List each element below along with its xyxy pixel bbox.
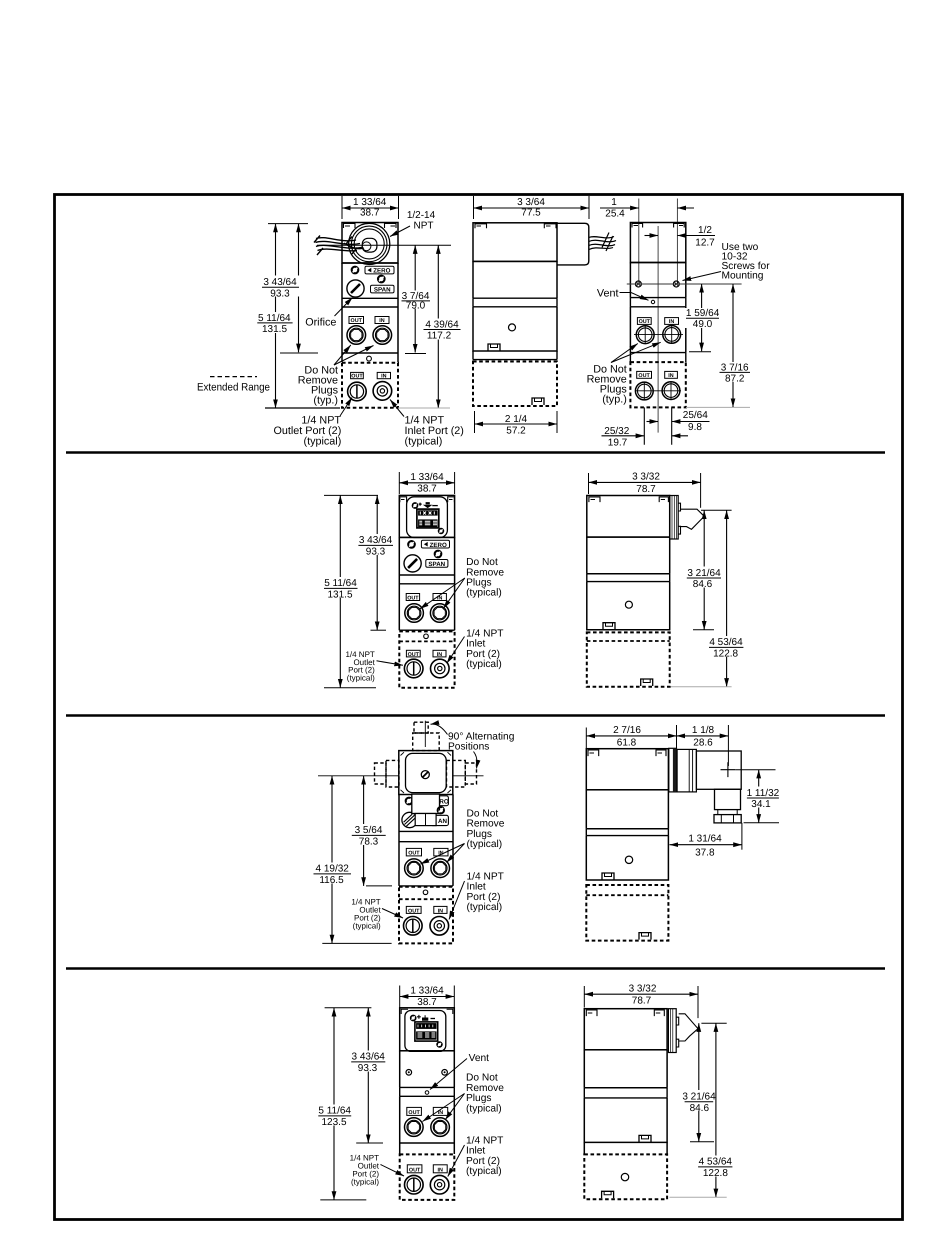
p2 right dashed box	[587, 632, 670, 686]
p2 right connector plate	[670, 496, 679, 540]
p1 right section line 2	[630, 297, 685, 299]
p2 dashed OUT port	[404, 659, 423, 678]
svg-text:4 19/32: 4 19/32	[316, 864, 350, 875]
p1 dim 1 59/64 extension	[689, 351, 711, 353]
p4 vent hole	[425, 1091, 429, 1095]
p4 module terminal row	[416, 1031, 436, 1039]
p1 middle third section	[473, 307, 557, 351]
p3 right dashed connector body	[447, 760, 466, 787]
p1 dim 4 39/64 line	[437, 245, 439, 408]
p1 SPAN label box	[371, 285, 395, 293]
svg-text:IN: IN	[437, 652, 442, 658]
p3 right connector lower block	[715, 789, 741, 809]
p1 dome middle ring	[351, 226, 387, 262]
svg-text:3 21/64: 3 21/64	[682, 1092, 716, 1103]
p1 right mounting screw right	[673, 281, 679, 287]
p1 right dashed IN port	[662, 382, 680, 400]
p1 right view screw center lines	[639, 199, 678, 285]
svg-text:3 3/32: 3 3/32	[629, 983, 657, 994]
p3 DIN connector inner square	[406, 753, 447, 792]
p1 left section line 3	[342, 306, 398, 308]
p3 right connector mounting plate	[669, 748, 677, 792]
svg-text:OUT: OUT	[408, 908, 420, 914]
p3 section line 1	[399, 830, 453, 832]
p1 dim 5 11/64 text	[256, 312, 295, 335]
p2 leader inlet port	[447, 637, 465, 664]
p2 right mounting clip	[603, 623, 615, 630]
p4 right mounting clip	[639, 1135, 651, 1142]
p3 right screw reference line	[735, 769, 775, 771]
p3 section line 3	[399, 885, 453, 887]
p1 leader inlet port	[390, 400, 404, 417]
svg-text:(typical): (typical)	[304, 436, 342, 448]
p3 dashed IN port	[430, 917, 449, 936]
svg-text:IN: IN	[437, 1167, 442, 1173]
p3 leader to IN port	[447, 844, 465, 863]
p3 SPAN label box (partially hidden)	[430, 815, 448, 825]
p1 dim 25/32 19.7 arrows	[602, 435, 645, 437]
p1 Orifice leader	[335, 298, 353, 317]
p3 dim 3 5/64 extension bottom	[366, 885, 392, 887]
p2 dim 3 21/64 line	[703, 510, 705, 629]
svg-text:25/32: 25/32	[604, 426, 629, 437]
p2 right top tab right	[659, 497, 668, 502]
p3 leader to OUT port	[421, 844, 465, 865]
svg-text:(typical): (typical)	[467, 839, 503, 850]
p4 dim 3 43/64 line	[367, 1008, 369, 1143]
p1 dome hub inner	[362, 242, 371, 251]
svg-text:1: 1	[611, 197, 617, 208]
svg-text:(typical): (typical)	[351, 1178, 379, 1187]
p2 right section line 1	[587, 536, 670, 538]
p1 right thin band	[630, 298, 685, 307]
p3 leader outlet port	[382, 909, 403, 919]
p2 display module	[407, 497, 448, 538]
p3 right dashed divider	[586, 894, 668, 896]
p1 dashed OUT port	[348, 382, 367, 401]
svg-text:12.7: 12.7	[695, 237, 715, 248]
svg-text:(typical): (typical)	[466, 588, 502, 599]
p1 Vent leader	[620, 293, 649, 301]
p4 right top tab left	[586, 1010, 597, 1016]
p3 leader positions to right connector	[474, 752, 478, 769]
p1 right vent hole	[651, 300, 654, 303]
p1 left section line 1	[342, 262, 398, 264]
p2 left section line 4	[399, 629, 454, 631]
p2 dim 3 43/64 line	[376, 495, 378, 630]
svg-text:3 5/64: 3 5/64	[355, 825, 383, 836]
svg-text:116.5: 116.5	[319, 875, 344, 886]
svg-text:1 33/64: 1 33/64	[410, 986, 444, 997]
svg-text:78.7: 78.7	[632, 996, 652, 1007]
p4 dim 5 11/64 text	[316, 1105, 354, 1129]
p3 right connector neck	[718, 810, 737, 815]
svg-text:1 11/32: 1 11/32	[747, 788, 780, 799]
p1 right screws reference line	[627, 283, 742, 285]
p1 dim 3 3/64 text	[513, 197, 550, 208]
p3 right dim 2 7/16 extension lines	[586, 725, 676, 749]
p1 right dashed IN label box	[665, 371, 678, 378]
svg-text:1 33/64: 1 33/64	[410, 472, 444, 483]
svg-text:OUT: OUT	[638, 373, 650, 379]
p3 right mounting clip	[602, 873, 614, 880]
separator line 2	[66, 714, 885, 717]
p1 dim 1 25.4 right segment	[677, 207, 694, 209]
p3 right dim 1 1/8 text	[691, 725, 716, 736]
p3 right dim 1 1/8 line	[677, 735, 729, 737]
svg-text:131.5: 131.5	[262, 324, 287, 335]
p2 right dashed clip	[641, 679, 653, 686]
p3 top dashed gland	[414, 722, 428, 733]
p3 dim 4 19/32 text	[312, 863, 353, 887]
p4 dashed box	[400, 1154, 455, 1200]
svg-text:84.6: 84.6	[690, 1103, 710, 1114]
p2 leader to OUT port	[420, 578, 465, 609]
p3 dashed box	[399, 887, 453, 944]
p1 dim 2 1/4 extension lines	[475, 411, 558, 433]
p4 left narrow band	[400, 1143, 455, 1154]
svg-text:38.7: 38.7	[417, 484, 437, 495]
svg-text:25/64: 25/64	[683, 410, 708, 421]
svg-text:34.1: 34.1	[751, 799, 771, 810]
svg-text:5 11/64: 5 11/64	[318, 1106, 351, 1117]
svg-text:78.3: 78.3	[359, 837, 379, 848]
p2 dim 4 53/64 line	[726, 510, 728, 687]
p1 middle top tab right	[544, 224, 556, 229]
p3 left dashed gland	[375, 763, 387, 784]
p3 DIN connector outer square	[399, 751, 453, 795]
p4 dim 3 21/64 line	[698, 1023, 700, 1141]
p1 right dashed box	[630, 362, 685, 407]
p1 dome center reference line	[317, 244, 451, 246]
p4 module display frame	[415, 1022, 438, 1041]
p1 left dashed extended-range box	[342, 363, 398, 408]
p4 left thin band	[400, 1087, 455, 1096]
svg-text:AN: AN	[438, 818, 447, 825]
svg-text:(typical): (typical)	[466, 659, 502, 670]
svg-text:57.2: 57.2	[506, 426, 526, 437]
svg-text:4 53/64: 4 53/64	[699, 1157, 733, 1168]
p4 dashed OUT label box	[407, 1165, 422, 1173]
p2 dim 5 11/64 extension top	[324, 494, 378, 496]
p1 dim 1 25.4 left segment	[600, 207, 639, 209]
svg-text:OUT: OUT	[639, 319, 651, 325]
p4 left second section	[400, 1051, 455, 1088]
p4 dim 5 11/64 line	[333, 1008, 335, 1200]
p1 middle conduit adapter	[557, 223, 589, 265]
svg-text:ZERO: ZERO	[373, 268, 390, 275]
p2 left vent hole	[424, 634, 429, 639]
p1 leader to OUT port	[334, 345, 351, 365]
svg-text:123.5: 123.5	[321, 1117, 346, 1128]
p2 module terminal row	[418, 519, 438, 527]
p2 left section line 2	[399, 574, 454, 576]
svg-text:Vent: Vent	[469, 1053, 490, 1064]
p4 OUT port	[405, 1118, 424, 1137]
p4 left top tab right	[447, 1009, 453, 1014]
p1 middle thin band	[473, 298, 557, 307]
p1 dim 3 7/16 text	[717, 362, 752, 385]
svg-text:93.3: 93.3	[366, 547, 386, 558]
p4 left OUT-IN section	[400, 1096, 455, 1143]
p1 left top tab left	[344, 224, 356, 229]
p1 right port lines below box	[644, 407, 671, 444]
p4 right dim 3 3/32 extension left	[583, 986, 585, 1008]
p4 right dim 3 3/32 extension right	[697, 986, 699, 1018]
svg-text:1 31/64: 1 31/64	[688, 834, 722, 845]
p2 module display frame	[417, 509, 439, 528]
svg-text:28.6: 28.6	[693, 738, 713, 749]
p1 left section line 4	[342, 352, 398, 354]
p2 OUT label box	[406, 594, 419, 601]
svg-text:19.7: 19.7	[608, 438, 628, 449]
p1 left view body top section	[342, 223, 398, 264]
p2 dim 3 21/64 text	[685, 567, 723, 591]
p4 leader to OUT port	[423, 1094, 465, 1122]
svg-text:3 7/16: 3 7/16	[721, 362, 749, 373]
svg-text:SPAN: SPAN	[428, 561, 445, 568]
svg-text:3 43/64: 3 43/64	[263, 277, 297, 288]
svg-text:3 21/64: 3 21/64	[687, 568, 721, 579]
p1 right IN port	[663, 326, 681, 344]
p1 dashed IN port	[373, 382, 392, 401]
p1 right ports horizontal line	[634, 334, 683, 336]
p2 right thin band	[587, 574, 670, 582]
p1 dim 1/2 12.7 arrows	[645, 235, 659, 237]
p1 dome inner ring	[354, 229, 384, 259]
p1 right mounting screw left	[635, 281, 641, 287]
p1 dim 3 7/64 text	[400, 291, 431, 312]
p1 zero screw	[352, 267, 359, 274]
svg-text:93.3: 93.3	[270, 288, 290, 299]
svg-text:122.8: 122.8	[703, 1168, 728, 1179]
svg-text:OUT: OUT	[408, 851, 420, 857]
p1 dim 3 43/64 line	[298, 224, 300, 353]
p3 orifice screw	[402, 812, 417, 827]
p1 dim 3 7/64 extension bottom	[405, 353, 426, 355]
p4 Vent leader	[430, 1059, 467, 1090]
svg-text:38.7: 38.7	[417, 997, 437, 1008]
p1 OUT port	[347, 326, 366, 345]
p4 dim 1 33/64 extension lines	[400, 986, 455, 1008]
p1 dim 3 7/64 line	[414, 245, 416, 352]
p3 DIN corner marks	[401, 752, 452, 793]
p4 left body top section	[400, 1008, 455, 1051]
p1 right band 2	[630, 353, 685, 363]
p3 OUT port	[405, 859, 424, 878]
p4 right dashed box	[584, 1154, 667, 1199]
p4 right connector screw bumps	[676, 1017, 679, 1047]
svg-text:1 59/64: 1 59/64	[686, 308, 720, 319]
p2 dim 5 11/64 line	[339, 495, 341, 687]
svg-text:OUT: OUT	[408, 652, 420, 658]
p2 dim 4 53/64 text	[706, 636, 746, 660]
separator line 1	[66, 451, 885, 454]
svg-text:(typical): (typical)	[347, 673, 375, 682]
p4 module display digits row	[416, 1023, 436, 1029]
p1 middle dashed box	[473, 362, 557, 407]
p2 dashed IN port	[431, 659, 450, 678]
p1 middle section line 2	[473, 297, 557, 299]
p2 dashed IN label box	[433, 650, 446, 657]
p1 dim 2 1/4 text	[503, 414, 530, 425]
p4 dim 4 53/64 text	[695, 1156, 735, 1180]
p3 dim 1 31/64 extension right	[741, 823, 743, 850]
p3 right body top section	[586, 749, 668, 790]
p1 right second section	[630, 263, 685, 298]
outer border frame	[55, 195, 903, 1220]
p1 right section line 3	[630, 352, 685, 354]
p2 dim 3 21/64 extension	[693, 629, 714, 631]
p2 right body top section	[587, 496, 670, 538]
p4 dim 5 11/64 extension top	[325, 1007, 372, 1009]
svg-text:OUT: OUT	[408, 1110, 420, 1116]
p3 DIN cable gland body	[412, 794, 440, 813]
p1 right body center line	[657, 226, 659, 433]
p2 left section line 3	[399, 583, 454, 585]
p4 IN port	[431, 1118, 450, 1137]
p2 dim 1 33/64 line	[399, 482, 454, 484]
svg-text:IN: IN	[379, 318, 384, 324]
p3 ZERO label box (partially hidden)	[429, 796, 448, 806]
svg-text:NPT: NPT	[414, 221, 434, 232]
p1 right body top section	[630, 223, 685, 263]
p3 dim 3 5/64 text	[350, 824, 388, 848]
p1 dim 3 3/64 extension lines	[474, 196, 590, 219]
p3 DIN cable gland nut	[415, 814, 436, 826]
p4 right second section	[584, 1050, 667, 1088]
svg-text:61.8: 61.8	[617, 738, 637, 749]
p1 ZERO label box	[365, 266, 394, 274]
p1 left top tab right	[385, 224, 397, 229]
svg-text:1/2: 1/2	[698, 225, 712, 236]
p1 right dashed ports horizontal line	[635, 390, 681, 392]
p3 right thin band	[586, 829, 668, 836]
p4 right top tab right	[654, 1010, 664, 1016]
p1 middle conduit squiggle wires	[589, 233, 616, 252]
svg-text:OUT: OUT	[351, 318, 363, 324]
p1 Extended Range dashed legend	[210, 376, 257, 378]
p2 module icon minus	[432, 505, 438, 507]
p3 right third section	[586, 836, 668, 880]
p1 middle section line 1	[473, 260, 557, 262]
p1 right IN label box	[665, 318, 679, 325]
p2 module display digits row	[418, 510, 438, 515]
p1 dim 3 3/64 line	[474, 207, 590, 209]
p4 module icon hand	[423, 1015, 428, 1020]
svg-text:RO: RO	[439, 799, 448, 806]
svg-text:38.7: 38.7	[360, 208, 380, 219]
p4 dim 3 21/64 extension	[690, 1141, 714, 1143]
svg-text:IN: IN	[669, 319, 674, 325]
p2 dashed OUT label box	[406, 650, 420, 657]
p4 module icon screw	[411, 1016, 416, 1021]
svg-text:IN: IN	[668, 373, 673, 379]
p3 right connector body	[696, 751, 741, 789]
p1 supply tubing squiggle	[314, 236, 364, 256]
svg-text:(typ.): (typ.)	[313, 395, 338, 407]
svg-text:4 39/64: 4 39/64	[425, 319, 459, 330]
p2 right dim 3 3/32 line	[589, 481, 701, 483]
p2 right dim 3 3/32 extension right	[700, 473, 702, 508]
svg-text:OUT: OUT	[409, 1167, 421, 1173]
p1 span screw	[378, 276, 385, 283]
p2 left dashed divider	[399, 640, 454, 642]
p1 dome hub boss	[362, 238, 377, 252]
p1 dim 1 59/64 line	[701, 284, 703, 351]
p2 zero screw	[408, 541, 415, 548]
p4 dashed OUT port	[405, 1175, 424, 1194]
p2 leader to IN port	[444, 578, 465, 608]
p3 right top tab left	[588, 750, 599, 756]
svg-text:1/2-14: 1/2-14	[407, 210, 436, 221]
p4 left section line 2	[400, 1086, 455, 1088]
svg-text:25.4: 25.4	[605, 209, 625, 220]
p2 module icon plus	[419, 503, 422, 506]
svg-text:OUT: OUT	[351, 374, 363, 380]
svg-text:4 53/64: 4 53/64	[709, 637, 743, 648]
p2 dim 5 11/64 extension bottom	[324, 687, 376, 689]
p1 dim 5 11/64 extension top	[268, 223, 308, 225]
svg-text:79.0: 79.0	[406, 301, 426, 312]
p3 right connector plate dark edge	[673, 748, 677, 792]
svg-text:IN: IN	[381, 374, 386, 380]
p3 90 deg arc leader	[431, 724, 448, 734]
p4 right connector tip reference line	[701, 1022, 726, 1024]
svg-text:(typ.): (typ.)	[602, 394, 627, 406]
p2 OUT port	[405, 604, 424, 623]
p1 dim 1 33/64 line	[342, 207, 399, 209]
p3 DIN center screw	[421, 771, 429, 779]
p1 middle gauge hole	[509, 324, 516, 331]
p1 middle second section	[473, 261, 557, 298]
p1 right top tab left	[632, 224, 643, 228]
p3 dashed OUT label box	[406, 906, 421, 913]
p2 right connector tip reference line	[701, 509, 732, 511]
p2 right connector wedge	[681, 509, 705, 529]
p4 dim 4 53/64 extension	[669, 1196, 726, 1198]
p2 dim 1 33/64 extension lines	[399, 472, 454, 494]
svg-text:131.5: 131.5	[327, 590, 352, 601]
svg-text:IN: IN	[438, 908, 443, 914]
p2 right top tab left	[589, 497, 600, 502]
p1 left vent hole	[367, 356, 372, 361]
p2 module icon hand	[424, 503, 431, 508]
p4 face screw right	[442, 1070, 448, 1076]
p1 left body side edges	[342, 263, 398, 362]
svg-text:3 43/64: 3 43/64	[359, 535, 393, 546]
svg-text:ZERO: ZERO	[430, 542, 447, 549]
p4 IN label box	[433, 1107, 447, 1115]
p2 module bottom screw	[439, 529, 444, 534]
p4 right third section	[584, 1098, 667, 1143]
p4 dashed IN port	[430, 1175, 449, 1194]
p4 dim 3 21/64 text	[682, 1090, 720, 1114]
p2 left top tab left	[400, 497, 407, 502]
p3 zero screw	[406, 798, 413, 805]
p3 IN port	[431, 859, 450, 878]
p2 dim 3 43/64 extension bottom	[371, 629, 387, 631]
p1 dashed-box bottom reference line right	[398, 407, 450, 409]
p1 dim 4 39/64 text	[422, 319, 462, 342]
p3 dashed OUT port	[404, 917, 423, 936]
p1 leader mounting screws	[683, 272, 722, 281]
svg-text:(typical): (typical)	[466, 1103, 502, 1114]
p3 horizontal center line right	[453, 775, 484, 777]
p3 dim 1 11/32 text	[744, 787, 781, 811]
p1 middle band 2	[473, 351, 557, 360]
p4 right connector wedge	[679, 1014, 698, 1041]
